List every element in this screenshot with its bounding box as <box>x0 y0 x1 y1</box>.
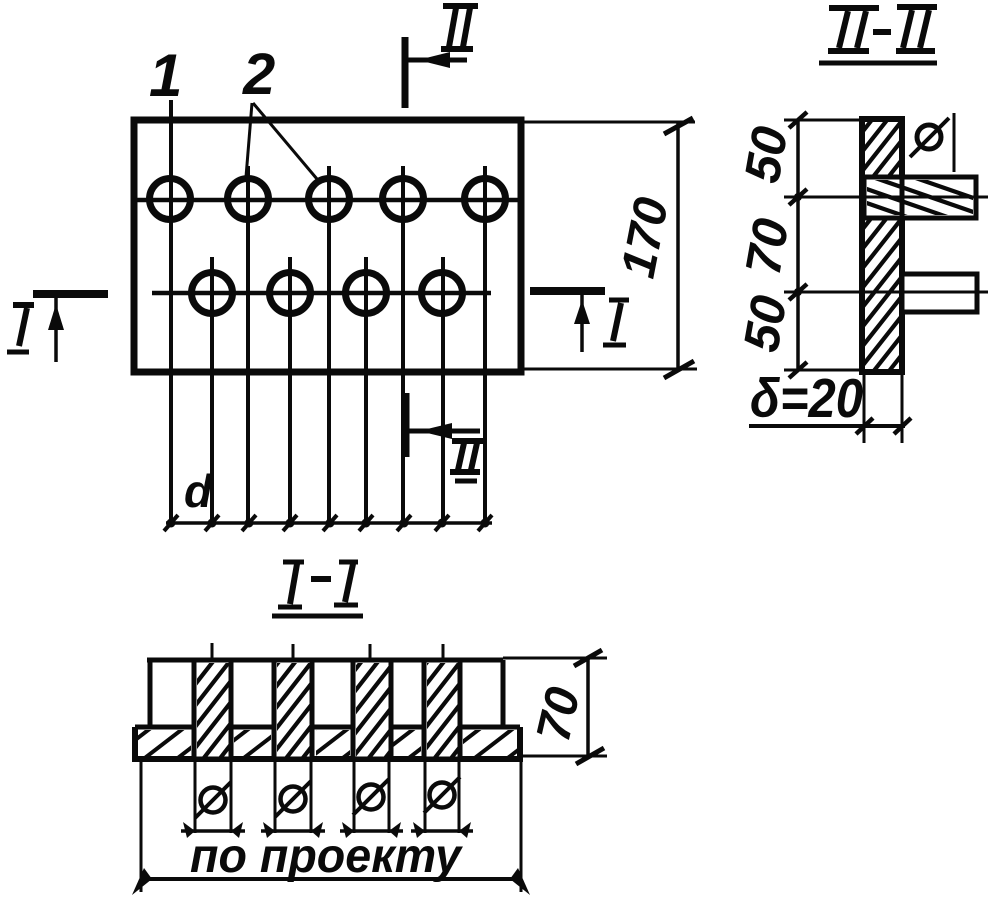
dim 70 line <box>586 658 590 756</box>
dim 170 tick bottom <box>664 361 694 378</box>
small dim arrows <box>183 822 471 838</box>
diameter symbol 2 <box>281 787 306 812</box>
rod top centerline <box>784 196 988 199</box>
section cut II bottom: arrow <box>419 423 452 439</box>
bottom row centerline <box>152 291 491 296</box>
title I-I <box>272 562 363 616</box>
pitch dim dots <box>167 519 490 528</box>
dim 170 line <box>676 122 680 369</box>
pitch dimension line d <box>166 521 492 525</box>
svg-text:d: d <box>184 465 213 517</box>
svg-text:50: 50 <box>733 291 798 356</box>
section cut I right: arrow <box>574 300 590 324</box>
axis line B1 <box>210 257 214 523</box>
diameter extension line <box>953 113 956 172</box>
section cut II bottom: stem <box>403 393 410 457</box>
hole A5 <box>465 179 506 220</box>
diameter symbol <box>917 125 941 149</box>
rod section 3 <box>353 660 391 759</box>
extension top <box>784 119 864 122</box>
section cut I right: numeral I <box>603 300 629 345</box>
axis line A4 <box>401 166 405 523</box>
ticks on left dim <box>789 112 807 378</box>
outer extension right <box>520 759 523 892</box>
overall dim arrows <box>132 868 152 895</box>
diameter symbol 4 <box>430 783 455 808</box>
axis line A3 <box>327 166 331 523</box>
svg-text:1: 1 <box>149 42 182 109</box>
hole B4 <box>422 273 463 314</box>
diameter symbol 1 <box>201 788 226 813</box>
pitch dim ticks <box>164 515 492 531</box>
plate section (hatched) <box>862 119 902 372</box>
axis line A5 <box>483 166 487 523</box>
rod section 2 <box>274 660 312 759</box>
small dim lines under rods <box>181 829 473 833</box>
title II-II <box>819 7 937 63</box>
axis line A2 <box>246 166 250 523</box>
hole A3 <box>309 179 350 220</box>
base plate outline <box>135 727 520 759</box>
section cut I right: flag line <box>530 287 605 295</box>
hole B1 <box>192 273 233 314</box>
left dim line <box>796 119 800 370</box>
leader from 2 to hole A2 <box>246 103 252 177</box>
comb top edge <box>147 658 503 663</box>
top row centerline <box>134 198 521 203</box>
delta extension lines <box>863 374 866 443</box>
leader from 2 to hole A3 <box>253 103 317 179</box>
dim 170 bottom extension <box>521 368 697 371</box>
section cut I left: stem <box>54 294 58 362</box>
axis line B2 <box>288 257 292 523</box>
svg-text:70: 70 <box>735 214 800 279</box>
svg-text:по проекту: по проекту <box>190 830 463 883</box>
section cut II bottom: flag line <box>406 429 480 434</box>
anchor rod top (hatched) <box>864 177 976 218</box>
rod section 1 <box>194 660 231 759</box>
base plate top edge <box>135 725 520 730</box>
overall dim line <box>141 877 521 881</box>
section cut II top: arrow <box>418 52 450 68</box>
rod section 4 <box>424 660 460 759</box>
delta ticks <box>856 418 873 434</box>
delta dim line <box>749 424 905 428</box>
hole A2 <box>228 179 269 220</box>
svg-text:170: 170 <box>612 193 679 282</box>
hole A1 <box>150 179 191 220</box>
diameter symbol 3 <box>359 785 384 810</box>
outer extension left <box>140 761 143 892</box>
svg-text:2: 2 <box>242 42 275 107</box>
section cut I left: numeral I <box>7 305 34 352</box>
hole B2 <box>270 273 311 314</box>
hole B3 <box>346 273 387 314</box>
axis line A1 with leader 1 <box>169 100 173 523</box>
section cut I right: stem <box>580 291 584 352</box>
dim 170 top extension <box>521 121 695 124</box>
section cut II bottom: numeral II <box>450 441 486 481</box>
anchor rod bottom <box>902 274 977 312</box>
dim 170 tick top <box>664 118 693 134</box>
rod bottom centerline <box>784 291 988 294</box>
hole A4 <box>383 179 424 220</box>
section cut II top: numeral II <box>441 6 478 49</box>
section cut I left: arrow <box>48 304 64 330</box>
comb left edge <box>148 660 153 727</box>
section cut II top: flag line <box>405 58 467 63</box>
plan plate outline <box>134 120 521 372</box>
section cut II top: stem <box>402 37 409 108</box>
axis line B3 <box>364 257 368 523</box>
rod centerline stubs <box>211 643 214 660</box>
svg-text:70: 70 <box>527 682 591 746</box>
dim 70 ticks <box>574 650 602 666</box>
extension bottom <box>784 369 864 372</box>
axis line B4 <box>441 257 445 523</box>
svg-text:δ=20: δ=20 <box>750 367 863 429</box>
section cut I left: flag line <box>33 290 108 298</box>
extension lines below rods <box>195 759 459 833</box>
svg-text:50: 50 <box>734 122 799 187</box>
dim 70 bottom extension <box>520 755 607 758</box>
comb right edge <box>501 660 506 727</box>
dim 70 top extension <box>503 657 607 660</box>
